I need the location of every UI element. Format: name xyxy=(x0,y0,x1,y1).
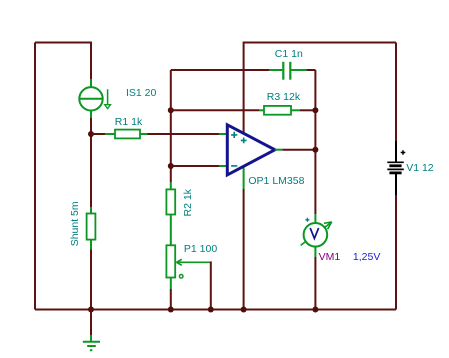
wire: bottom horizontal xyxy=(35,309,396,311)
wire: top-right horizontal xyxy=(244,42,396,44)
ground xyxy=(83,342,100,350)
svg-text:VM1: VM1 xyxy=(319,251,341,263)
wire: inverting input wire y=166 xyxy=(171,165,227,167)
svg-text:P1 100: P1 100 xyxy=(184,243,217,255)
node: junction dot (315.4,149.7) xyxy=(312,147,318,153)
svg-text:1,25V: 1,25V xyxy=(353,251,380,263)
svg-text:Shunt 5m: Shunt 5m xyxy=(69,201,81,246)
wire: R3 branch y=110.3 xyxy=(171,109,316,111)
svg-text:OP1 LM358: OP1 LM358 xyxy=(248,175,304,187)
svg-text:IS1 20: IS1 20 xyxy=(126,87,157,99)
node: junction dot (91,309.5) xyxy=(88,307,94,313)
current source IS1 xyxy=(79,87,110,110)
resistor R3 xyxy=(264,106,291,115)
wire: left rail x=91 segments xyxy=(90,42,92,311)
wire: far-left vertical xyxy=(34,43,36,310)
svg-text:R2 1k: R2 1k xyxy=(182,188,194,216)
resistor R2 xyxy=(166,189,175,214)
wire: wiper drop x=211 xyxy=(210,261,212,310)
wire: op-amp V+ supply rail x=243.6 xyxy=(243,42,245,311)
node: junction dot (315.4,309.5) xyxy=(312,307,318,313)
wire: C1 top branch y=70 xyxy=(171,69,316,71)
resistor R1 xyxy=(115,130,140,139)
node: junction dot (315.4,110.3) xyxy=(312,107,318,113)
node: junction dot (243.6,309.5) xyxy=(241,307,247,313)
node A: junction dot (91,134) xyxy=(88,131,94,137)
node: junction dot (170.8,166) xyxy=(168,163,174,169)
voltmeter VM1 xyxy=(301,218,332,247)
svg-text:R1 1k: R1 1k xyxy=(115,116,143,128)
battery V1 xyxy=(387,150,405,173)
wire: op-amp output xyxy=(275,149,316,151)
wire: output rail x=315.4 xyxy=(314,70,316,310)
node: junction dot (170.8,110.3) xyxy=(168,107,174,113)
op-amp U1 triangle xyxy=(227,125,275,175)
wire: feedback rail x=170.8 xyxy=(170,70,172,310)
svg-text:V1 12: V1 12 xyxy=(406,162,434,174)
wire: IS1 green leads xyxy=(90,79,92,118)
wire: shunt green leads xyxy=(90,207,92,250)
svg-text:R3 12k: R3 12k xyxy=(267,91,301,103)
wire: R1 input wire to op-amp + xyxy=(91,133,227,135)
capacitor C1 xyxy=(283,62,290,80)
node: junction dot (210.8,309.5) xyxy=(208,307,214,313)
wire: ground lead xyxy=(90,310,92,342)
wire: battery rail x=396 xyxy=(395,43,397,310)
svg-text:C1 1n: C1 1n xyxy=(275,48,303,60)
node: junction dot (170.8,309.5) xyxy=(168,307,174,313)
resistor Shunt xyxy=(87,214,96,240)
potentiometer P1 xyxy=(166,245,210,278)
wire: top-left horizontal xyxy=(35,42,91,44)
